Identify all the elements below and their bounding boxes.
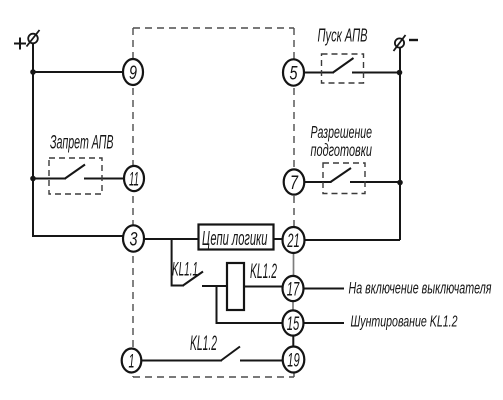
device boundary dashed box top bbox=[133, 28, 294, 377]
device boundary dashed box right upper part bbox=[293, 28, 295, 228]
wire: Запрет АПВ contact to terminal 11 bbox=[84, 178, 125, 180]
svg-text:Цепи логики: Цепи логики bbox=[202, 228, 268, 250]
node link 17-15 bbox=[292, 299, 294, 312]
junction dot on - rail row 7 bbox=[397, 180, 403, 186]
svg-text:11: 11 bbox=[129, 170, 139, 191]
svg-text:1: 1 bbox=[129, 352, 135, 373]
junction dot on - rail row 5 bbox=[397, 70, 403, 76]
switch blade Пуск АПВ bbox=[333, 58, 354, 73]
wire: terminal 5 to Пуск АПВ contact bbox=[304, 72, 335, 74]
relay coil KL1.2 bbox=[227, 263, 244, 310]
wire: terminal 21 to - rail bbox=[304, 239, 400, 241]
svg-text:KL1.2: KL1.2 bbox=[250, 260, 277, 283]
svg-text:3: 3 bbox=[130, 230, 138, 251]
svg-text:21: 21 bbox=[287, 231, 300, 252]
node link 21-17 bbox=[293, 251, 295, 278]
device boundary dashed box bottom bbox=[133, 376, 294, 378]
svg-text:17: 17 bbox=[287, 280, 300, 301]
svg-text:Пуск АПВ: Пуск АПВ bbox=[318, 25, 368, 46]
terminal 17 bbox=[283, 276, 304, 301]
wire: KL1.1 contact to coil KL1.2 bbox=[202, 285, 227, 287]
switch blade KL1.1 bbox=[183, 272, 203, 286]
svg-text:Шунтирование KL1.2: Шунтирование KL1.2 bbox=[351, 314, 458, 331]
device boundary dashed box right lower stub bbox=[293, 371, 295, 377]
junction dot on + rail row 9 bbox=[30, 69, 36, 75]
terminal 3 bbox=[123, 225, 144, 251]
wire: + rail to terminal 9 bbox=[33, 71, 124, 73]
svg-text:5: 5 bbox=[290, 64, 298, 85]
wire: branch down to terminal 15 bbox=[217, 286, 284, 323]
wire: Пуск АПВ contact to - rail bbox=[352, 72, 400, 74]
svg-text:9: 9 bbox=[129, 63, 137, 84]
wire: terminal 17 output bbox=[304, 288, 345, 290]
junction dot on + rail row 11 bbox=[30, 176, 36, 182]
terminal 15 bbox=[283, 310, 304, 335]
dashed box around Запрет АПВ contact bbox=[49, 158, 102, 194]
wire: terminal 15 output bbox=[304, 322, 345, 324]
terminal 9 bbox=[123, 59, 143, 85]
terminal 21 bbox=[283, 227, 305, 253]
terminal 11 bbox=[124, 166, 144, 191]
wire: coil KL1.2 to terminal 17 bbox=[244, 286, 283, 288]
wire: right - rail vertical bbox=[399, 48, 401, 240]
terminal 1 bbox=[122, 349, 142, 373]
logic box Цепи логики bbox=[199, 225, 274, 250]
terminal symbol left Ø bbox=[28, 34, 38, 44]
wire: logic box to terminal 21 bbox=[274, 238, 284, 240]
wire: + rail to Запрет АПВ contact left lead bbox=[33, 178, 66, 180]
svg-text:19: 19 bbox=[287, 351, 300, 372]
svg-text:KL1.2: KL1.2 bbox=[190, 332, 217, 355]
terminal symbol - (minus sign) bbox=[409, 39, 418, 41]
terminal symbol + (plus sign) bbox=[14, 38, 26, 50]
wire: terminal 7 to Разрешение contact bbox=[304, 181, 332, 183]
wire: terminal 1 to KL1.2 contact bbox=[141, 360, 222, 362]
switch blade Разрешение подготовки bbox=[331, 168, 352, 182]
wire: Разрешение contact to - rail bbox=[350, 181, 400, 183]
wire: terminal 3 to logic box bbox=[143, 238, 198, 240]
terminal 7 bbox=[284, 169, 305, 194]
svg-text:7: 7 bbox=[290, 173, 299, 194]
svg-text:На включение выключателя: На включение выключателя bbox=[349, 280, 492, 298]
svg-text:подготовки: подготовки bbox=[311, 140, 373, 160]
terminal 5 bbox=[283, 59, 304, 85]
svg-text:KL1.1: KL1.1 bbox=[172, 259, 198, 281]
svg-text:Запрет АПВ: Запрет АПВ bbox=[50, 132, 114, 154]
dashed box around Пуск АПВ contact bbox=[322, 54, 364, 83]
dashed box around Разрешение подготовки contact bbox=[323, 163, 365, 194]
node link 15-19 (wire) bbox=[292, 334, 294, 350]
terminal symbol right Ø bbox=[395, 38, 404, 47]
switch blade KL1.2 bottom bbox=[221, 347, 240, 361]
svg-text:Разрешение: Разрешение bbox=[311, 122, 373, 142]
wire: left + rail vertical with corner to terminal 3 bbox=[33, 43, 124, 236]
wire: KL1.1 vertical lead and stub bbox=[172, 239, 184, 286]
device boundary dashed box left bbox=[132, 28, 134, 377]
switch blade Запрет АПВ bbox=[65, 165, 85, 179]
terminal 19 bbox=[283, 347, 305, 373]
wire: KL1.2 contact to terminal 19 bbox=[240, 360, 284, 362]
svg-text:15: 15 bbox=[287, 314, 300, 335]
